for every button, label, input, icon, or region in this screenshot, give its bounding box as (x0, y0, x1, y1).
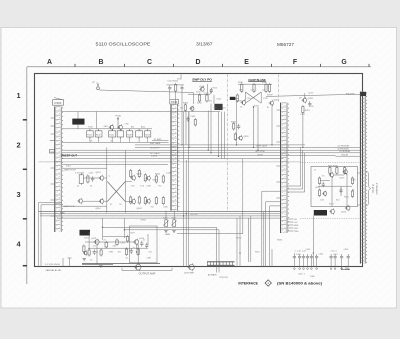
wire (77, 125, 79, 129)
svg-text:Q315: Q315 (274, 100, 280, 102)
resistor R521 (351, 189, 353, 198)
wire (216, 227, 218, 272)
wire (320, 180, 330, 182)
resistor R507 (336, 166, 338, 175)
wire (239, 216, 241, 267)
wire (336, 152, 361, 154)
wire (293, 253, 295, 254)
svg-text:INTCON: INTCON (220, 277, 228, 279)
capacitor C603 (306, 254, 309, 260)
transistor Q505 (329, 172, 334, 178)
svg-text:SER: SER (104, 126, 109, 128)
ground below R440 (164, 231, 167, 233)
wire (334, 260, 336, 267)
cross-coupling wire A (245, 92, 261, 103)
net label block (230, 97, 236, 100)
resistor R471 (83, 244, 85, 253)
resistor R519 (351, 176, 353, 185)
wire (125, 181, 131, 183)
wire (88, 247, 148, 249)
grid ruler horizontal (27, 66, 371, 68)
resistor R312 (253, 83, 255, 93)
wire (266, 94, 362, 96)
wire stub into P401 (50, 140, 55, 142)
svg-text:+5 FROM A9: +5 FROM A9 (339, 150, 350, 153)
svg-text:R145: R145 (109, 134, 114, 136)
cross-over wire B (107, 182, 125, 202)
svg-text:C601 .1: C601 .1 (298, 273, 306, 275)
wire (69, 258, 71, 267)
svg-text:Q320: Q320 (308, 98, 314, 100)
routing corner nest (287, 147, 304, 192)
svg-text:R153: R153 (145, 134, 150, 136)
wire (137, 244, 139, 264)
wire output rail (82, 263, 160, 265)
transistor Q474 (133, 239, 139, 246)
routing corner left A (39, 203, 62, 267)
resistor R143 (95, 129, 102, 138)
resistor R425 (138, 169, 140, 178)
ground dot C608 (341, 268, 343, 270)
wire (346, 174, 348, 206)
grid ruler vertical (26, 67, 28, 284)
capacitor C481 (93, 249, 96, 255)
transistor Q433 (189, 106, 194, 112)
wire (77, 112, 79, 119)
junction node (102, 227, 103, 228)
wire (102, 218, 104, 240)
wire (124, 150, 126, 213)
ground dot C609 (347, 268, 349, 270)
wire (235, 97, 238, 99)
wire (169, 91, 171, 104)
svg-text:(SN B140000 & above): (SN B140000 & above) (277, 281, 322, 285)
resistor R141 (87, 129, 94, 138)
wire stub below border (180, 75, 182, 79)
resistor R435 (155, 196, 157, 205)
wire (218, 230, 220, 273)
capacitor C511 (322, 182, 325, 188)
cross-over wire A (107, 182, 125, 202)
wire (188, 112, 190, 267)
svg-text:R143: R143 (96, 134, 101, 136)
capacitor C110 (168, 85, 171, 91)
schematic border frame (35, 74, 363, 267)
wire (62, 158, 284, 160)
wire (318, 185, 352, 187)
resistor R315 (268, 83, 270, 93)
resistor R487 (137, 247, 139, 256)
ground below R442 (172, 231, 175, 233)
junction node (253, 147, 254, 148)
wire (260, 92, 262, 103)
svg-text:INTERFACE: INTERFACE (376, 182, 379, 194)
svg-text:E: E (244, 59, 249, 66)
connector pin box on P401 (50, 150, 55, 154)
wire (341, 260, 343, 267)
svg-text:HOLDOFF: HOLDOFF (150, 147, 160, 149)
potentiometer R442 (171, 220, 177, 227)
wire (358, 172, 361, 174)
wire (183, 112, 185, 267)
routing corner left B (41, 205, 62, 267)
resistor R153 (145, 129, 151, 138)
svg-text:-SAWTOOTH: -SAWTOOTH (63, 205, 76, 208)
svg-text:SWP DLY PO: SWP DLY PO (192, 78, 212, 82)
svg-text:4.7K: 4.7K (75, 172, 80, 174)
wire (85, 241, 134, 243)
resistor R511 (318, 176, 320, 185)
svg-text:4.7K: 4.7K (251, 90, 256, 92)
capacitor C112 (180, 85, 183, 91)
svg-text:INTERFACE: INTERFACE (238, 281, 258, 285)
resistor R319 (234, 132, 236, 141)
capacitor C407 (91, 176, 94, 182)
wire (206, 84, 208, 95)
pin stubs P460 (287, 219, 293, 231)
wire (165, 211, 167, 220)
junction node (210, 152, 211, 153)
ground dot C602 (303, 268, 305, 270)
wire (104, 177, 107, 179)
wire (106, 147, 108, 212)
wire (185, 112, 187, 145)
wire drops from resistor row (90, 129, 148, 143)
title underline (192, 81, 212, 83)
svg-text:G: G (341, 59, 346, 66)
section boundary dash-dot vertical D (227, 75, 229, 212)
section divider dotted lower (300, 218, 361, 220)
svg-text:GND: GND (294, 225, 299, 227)
assembly label A5 OUT (314, 210, 327, 216)
resistor R505 (329, 166, 331, 175)
wire (330, 260, 332, 267)
svg-text:Q413: Q413 (96, 172, 102, 174)
wire (167, 84, 185, 86)
svg-text:TRIG: TRIG (294, 231, 299, 233)
wire (221, 112, 223, 159)
svg-text:C: C (147, 59, 152, 66)
resistor R424 (130, 195, 132, 204)
junction node (239, 252, 240, 253)
capacitor C601 (298, 254, 301, 260)
junction node (302, 147, 303, 148)
ground output stage (99, 265, 102, 267)
junction node (136, 251, 137, 252)
wire (238, 83, 272, 85)
connector P401 (55, 107, 63, 233)
svg-text:A4 MAIN: A4 MAIN (208, 273, 217, 276)
transistor Q432 (146, 198, 151, 204)
svg-text:3: 3 (16, 190, 20, 199)
wire (224, 112, 226, 159)
resistor R426 (138, 195, 140, 204)
bracket OUTPUT AMP (122, 268, 172, 271)
svg-text:W470: W470 (236, 237, 242, 239)
connector P460 (281, 103, 289, 233)
svg-text:1: 1 (16, 91, 20, 100)
cross-coupling wire B (245, 92, 261, 103)
junction node (313, 252, 314, 253)
svg-text:C110 R111: C110 R111 (168, 81, 179, 83)
wire (218, 112, 220, 157)
wire (88, 232, 90, 250)
svg-text:Q414: Q414 (96, 208, 102, 210)
transistor Q477 on border (134, 263, 141, 271)
svg-text:R149: R149 (127, 134, 132, 136)
wire drop from bus to amp (248, 216, 251, 262)
wire (175, 91, 177, 104)
wire (185, 160, 187, 267)
transistor Q431 (146, 175, 151, 181)
resistor R318 (233, 122, 235, 131)
wire (40, 215, 280, 217)
test point TP155 (97, 84, 100, 90)
wire (62, 111, 220, 113)
svg-text:TO SWP: TO SWP (154, 139, 163, 141)
capacitor C609 (347, 254, 350, 260)
wire (125, 201, 131, 203)
junction node (236, 144, 237, 145)
transistor Q210 (199, 86, 204, 92)
wire (99, 90, 193, 93)
transistor Q405 (77, 198, 82, 204)
svg-text:PARTIAL A1 BD: PARTIAL A1 BD (46, 269, 62, 272)
svg-text:3/13/87: 3/13/87 (196, 42, 213, 47)
resistor R437 (162, 196, 164, 205)
wire output rail dark segment (82, 264, 113, 266)
wire (193, 93, 195, 105)
resistor R310 (241, 83, 243, 93)
connector P475 horizontal (207, 262, 235, 266)
svg-text:P430: P430 (171, 100, 178, 104)
svg-text:+SWP GATE: +SWP GATE (256, 145, 268, 148)
wire (147, 234, 149, 245)
wire (124, 229, 219, 231)
svg-text:Z AXIS: Z AXIS (151, 155, 158, 158)
grid ruler ticks (75, 64, 369, 67)
resistor R485 (125, 247, 127, 256)
wire bottom feed verticals (264, 212, 272, 267)
capacitor C605 (315, 254, 318, 260)
junction node (181, 144, 182, 145)
wire (62, 152, 336, 154)
wire (152, 140, 169, 142)
resistor R145 (109, 129, 116, 138)
resistor R407 (87, 174, 89, 183)
wire (299, 260, 301, 267)
wire (253, 107, 255, 147)
transistor Q423 (130, 175, 135, 181)
ground dot C604 (311, 268, 313, 270)
svg-text:SWEEP OUT: SWEEP OUT (61, 154, 78, 158)
resistor R433a (184, 103, 186, 112)
decoupling capacitor row (0, 0, 1, 1)
resistor R434 (155, 174, 157, 183)
resistor R149 (127, 129, 133, 138)
capacitor C318 (237, 124, 240, 130)
transistor Q511 (322, 191, 327, 197)
svg-text:+SAWTOOTH: +SAWTOOTH (63, 169, 76, 172)
junction node (208, 150, 209, 151)
transistor Q507 (342, 169, 347, 175)
cluster sweep pickoff parts (0, 0, 1, 1)
resistor R481 (88, 248, 90, 256)
wire (103, 236, 128, 238)
transistor Q424 (130, 198, 135, 204)
wire (104, 200, 107, 202)
junction node (183, 215, 184, 216)
wire (62, 258, 64, 267)
capacitor C485 (130, 248, 133, 254)
svg-text:CH1 OUT: CH1 OUT (190, 214, 199, 216)
wire (96, 244, 98, 263)
routing corner to output amp (177, 159, 243, 234)
wire (188, 112, 190, 148)
svg-text:2: 2 (16, 141, 20, 150)
ground dot C606 (330, 268, 332, 270)
wire (257, 107, 259, 150)
svg-text:5.6K: 5.6K (320, 199, 325, 201)
svg-text:GAIN: GAIN (165, 233, 170, 236)
wire (96, 112, 98, 129)
wire (331, 177, 333, 207)
resistor R475 (116, 238, 118, 246)
svg-text:5110 OSCILLOSCOPE: 5110 OSCILLOSCOPE (96, 42, 151, 47)
resistor R513 (318, 188, 320, 197)
wire (135, 146, 336, 148)
grid row ticks (23, 120, 27, 266)
transistor Q310 (241, 100, 246, 106)
svg-text:GND A9: GND A9 (341, 153, 348, 156)
wire (83, 177, 100, 179)
junction node (218, 156, 219, 157)
wire tee top (68, 257, 72, 259)
wire (334, 174, 344, 176)
resistor R423 (130, 169, 132, 178)
svg-text:CHOP: CHOP (267, 94, 273, 96)
ground dot C607 (334, 268, 336, 270)
wire (103, 226, 217, 228)
wire (236, 101, 238, 145)
svg-text:TO A5 J1: TO A5 J1 (372, 183, 375, 193)
wire (57, 217, 280, 219)
relay K210 (214, 104, 222, 110)
wire (62, 205, 107, 207)
ground dot C605 (316, 268, 318, 270)
transistor Q414 (99, 198, 104, 204)
pin stub wires into P401 (51, 118, 55, 216)
section divider line (39, 161, 301, 163)
wire (62, 163, 168, 165)
transistor Q413 (99, 175, 104, 181)
capacitor C476 (145, 243, 148, 249)
wire (336, 146, 361, 148)
wire (358, 204, 361, 206)
svg-text:+15V: +15V (308, 93, 314, 95)
test point TP140 arrow (117, 117, 119, 129)
transistor Q473 (94, 239, 100, 246)
svg-text:ALT SYNC: ALT SYNC (256, 150, 266, 153)
potentiometer R440 (163, 220, 169, 227)
svg-text:1.5K: 1.5K (131, 185, 136, 187)
svg-text:D: D (196, 59, 201, 66)
svg-text:CH2: CH2 (294, 228, 298, 230)
wire bus joining resistor row (62, 128, 152, 130)
svg-text:R141: R141 (87, 134, 92, 136)
svg-text:-15 FROM A9: -15 FROM A9 (337, 147, 349, 150)
transistor Q140 (109, 124, 114, 130)
resistor R436 (162, 174, 164, 183)
svg-text:W480: W480 (277, 239, 283, 241)
section divider dotted (300, 161, 361, 163)
resistor R111 (175, 83, 177, 93)
wire (244, 92, 246, 101)
connector J101 edge (360, 92, 366, 264)
bottom right border stubs (342, 267, 351, 270)
svg-text:1.5K: 1.5K (140, 185, 145, 187)
section boundary dash-dot vertical E (277, 75, 279, 103)
capacitor C213 (210, 88, 213, 94)
wire (293, 260, 295, 267)
svg-text:Q423: Q423 (137, 174, 143, 176)
junction node (253, 106, 254, 107)
wire (123, 218, 125, 238)
resistor R473 (105, 241, 108, 249)
capacitor C602 (302, 254, 305, 260)
connector P430 shell label (170, 99, 179, 104)
svg-text:Q479 SWP: Q479 SWP (184, 273, 195, 275)
wire (210, 89, 212, 94)
ground dot C603 (307, 268, 309, 270)
wire (173, 211, 175, 220)
svg-text:3.9K: 3.9K (310, 106, 315, 108)
transistor Q513 (345, 205, 350, 211)
transistor Q318 (238, 135, 243, 141)
wire (62, 167, 107, 169)
ground under Q471 (83, 259, 86, 261)
wire (136, 244, 138, 249)
junction node (257, 150, 258, 151)
svg-text:F: F (293, 59, 297, 66)
wire (271, 105, 273, 145)
ground dot C600 (294, 268, 296, 270)
svg-text:DLY GATE: DLY GATE (150, 152, 160, 155)
junction node (186, 213, 187, 214)
title underline 2 (248, 81, 265, 83)
wire (310, 260, 312, 267)
wire (83, 200, 100, 202)
pin stub wires into P460 (277, 110, 281, 198)
assembly label A1 VERT MODE (72, 119, 84, 125)
capacitor C607 (334, 254, 337, 260)
amplifier block outline bottom (130, 226, 158, 263)
svg-text:A: A (47, 59, 52, 66)
wire (307, 260, 309, 267)
wire (340, 186, 342, 196)
amplifier block outline A5 (311, 167, 358, 207)
capacitor C322 (308, 101, 311, 107)
wire (336, 155, 361, 157)
ground dot C601 (299, 268, 301, 270)
wire (207, 111, 209, 151)
svg-text:FROM A9: FROM A9 (346, 93, 356, 96)
resistor R151 (136, 129, 143, 138)
wire (62, 155, 336, 157)
junction node (188, 147, 189, 148)
wire (62, 141, 169, 143)
wire (188, 93, 210, 95)
